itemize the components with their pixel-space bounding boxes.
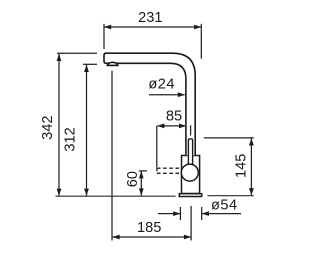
lever rod [188, 139, 192, 165]
aerator nozzle [107, 62, 117, 65]
dimension 312 [83, 64, 97, 196]
dimension ø54 [158, 207, 241, 220]
spout tube outline [104, 53, 195, 155]
svg-text:60: 60 [125, 171, 141, 187]
spout tube fill [104, 53, 195, 155]
dimension 342 [57, 53, 97, 196]
dimension 85 [157, 125, 191, 167]
counter baseline right / 145 bottom extension [208, 195, 254, 197]
svg-text:312: 312 [62, 127, 78, 151]
svg-text:85: 85 [166, 108, 182, 124]
svg-text:ø24: ø24 [148, 77, 175, 93]
dimension 145 [204, 138, 254, 195]
svg-text:145: 145 [233, 154, 249, 178]
svg-text:231: 231 [138, 10, 162, 26]
base flange [179, 194, 201, 197]
svg-text:ø54: ø54 [211, 197, 238, 213]
phantom lever (dashed, rotated position) [157, 168, 183, 174]
dimension 60 [139, 171, 147, 196]
svg-text:342: 342 [40, 116, 56, 140]
label ø24 leader [149, 94, 185, 96]
counter baseline left [56, 195, 176, 197]
ball joint [181, 164, 198, 181]
faucet body cartridge housing [182, 156, 200, 194]
svg-text:185: 185 [137, 220, 161, 236]
dimension 185 [112, 71, 191, 241]
dimension 231 [104, 24, 201, 59]
